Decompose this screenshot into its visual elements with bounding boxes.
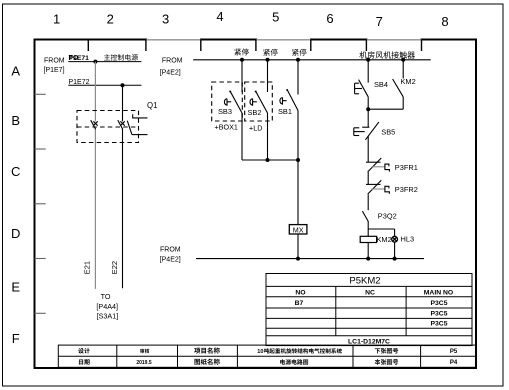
svg-text:[S3A1]: [S3A1]	[97, 311, 119, 320]
svg-text:1: 1	[53, 12, 60, 27]
top bus wire	[193, 59, 431, 61]
svg-text:FROM: FROM	[44, 57, 65, 64]
svg-text:P3C5: P3C5	[430, 310, 447, 317]
label FROM [P4E2] (top)	[160, 58, 183, 77]
wire E22 column	[122, 85, 124, 288]
svg-text:[P4E2]: [P4E2]	[160, 257, 181, 264]
column numbers 1-8	[53, 9, 449, 29]
label 机房风机接触器	[359, 51, 415, 58]
svg-text:B: B	[11, 113, 20, 128]
svg-text:2: 2	[107, 12, 114, 27]
table cells P3C5	[430, 300, 447, 327]
breaker Q1 pole 2	[118, 120, 125, 129]
coil MX	[289, 225, 307, 234]
contact P3FR1 thermal overload	[366, 158, 389, 184]
left row tick marks	[35, 94, 46, 313]
label P1E71 with TO overlap	[69, 55, 90, 62]
junction dots on top bus	[240, 58, 405, 62]
svg-text:TO: TO	[101, 292, 111, 301]
svg-text:3: 3	[162, 12, 169, 27]
breaker Q1 auxiliary contact	[127, 114, 147, 134]
svg-text:NC: NC	[365, 289, 375, 296]
row letters A-F	[11, 63, 20, 346]
svg-text:D: D	[11, 226, 20, 241]
contact P3FR2 thermal overload	[366, 180, 389, 210]
label 主控制电源	[104, 54, 138, 60]
svg-text:P3C5: P3C5	[430, 320, 447, 327]
svg-text:C: C	[11, 164, 20, 179]
pushbutton SB4	[355, 60, 369, 109]
svg-text:10: 10	[257, 349, 263, 355]
svg-text:2019.5: 2019.5	[136, 360, 152, 366]
wire seal-in connector	[368, 108, 403, 110]
pushbutton SB5	[354, 109, 379, 162]
title block	[58, 345, 476, 367]
svg-text:7: 7	[376, 14, 383, 29]
svg-text:LC1-D12M7C: LC1-D12M7C	[348, 338, 390, 345]
svg-text:SB4: SB4	[374, 80, 388, 89]
svg-text:P5KM2: P5KM2	[349, 276, 380, 287]
svg-text:FROM: FROM	[160, 247, 181, 254]
label FROM [P4E2] (bottom)	[160, 247, 181, 264]
top column tick marks	[88, 40, 421, 52]
svg-text:+LD: +LD	[249, 123, 262, 132]
title block cell 下张图号	[375, 348, 398, 354]
svg-text:SB3: SB3	[218, 107, 232, 116]
svg-text:5: 5	[272, 10, 279, 25]
wire E21 column (gray)	[94, 62, 96, 289]
svg-text:P3Q2: P3Q2	[378, 212, 397, 221]
title block cell 本张图号	[375, 359, 399, 365]
coil KM2	[360, 236, 376, 242]
svg-text:SB2: SB2	[248, 108, 262, 117]
svg-text:KM2: KM2	[377, 235, 392, 244]
svg-text:P5: P5	[450, 349, 458, 355]
svg-text:E21: E21	[83, 261, 92, 274]
svg-text:8: 8	[441, 14, 448, 29]
title block cell 电源电路图	[280, 359, 308, 364]
node dot on P1E71	[93, 60, 97, 64]
lamp HL3	[392, 236, 398, 258]
pushbutton SB1	[280, 60, 298, 160]
frame top gray segments	[146, 38, 422, 41]
wire P1E72	[68, 84, 141, 86]
svg-text:E22: E22	[110, 261, 119, 274]
breaker Q1 dashed enclosure	[77, 111, 139, 143]
svg-text:6: 6	[326, 11, 333, 26]
contact P3Q2	[362, 211, 368, 229]
contact KM2 auxiliary	[393, 60, 404, 109]
breaker Q1 pole 1	[91, 120, 98, 129]
svg-text:P4: P4	[450, 360, 458, 366]
title block cell 图纸名称	[194, 359, 219, 365]
title block cell 审核	[140, 349, 149, 354]
svg-text:[P4E2]: [P4E2]	[160, 70, 181, 77]
svg-text:FROM: FROM	[162, 58, 183, 65]
svg-text:P3FR1: P3FR1	[395, 163, 418, 172]
junction dots on connector	[266, 158, 301, 162]
label TO [P4A4] [S3A1]	[96, 292, 118, 321]
label 紧停 (SB1)	[292, 49, 306, 56]
title block cell 日期	[79, 359, 90, 365]
title block cell 项目名称	[194, 347, 220, 353]
node dot on P1E72	[121, 83, 125, 87]
dashed box +LD	[245, 82, 273, 121]
svg-text:P1E72: P1E72	[69, 79, 90, 86]
svg-text:B7: B7	[295, 300, 304, 307]
table column headers NO / NC / MAIN NO	[295, 289, 453, 296]
svg-text:TO: TO	[69, 55, 78, 62]
label 紧停 (SB2)	[263, 49, 277, 56]
label 紧停 (SB3)	[234, 48, 248, 55]
dashed box +BOX1	[212, 82, 243, 121]
bottom bus wire	[196, 258, 424, 260]
svg-text:P3FR2: P3FR2	[395, 185, 418, 194]
title block cell 设计	[78, 348, 90, 354]
label FROM [P1E7]	[44, 57, 65, 74]
pushbutton SB3	[224, 60, 242, 160]
wire node branch to lamp	[368, 229, 394, 237]
pushbutton SB2	[250, 60, 267, 160]
svg-text:A: A	[11, 63, 20, 78]
svg-text:KM2: KM2	[401, 77, 416, 86]
svg-text:F: F	[12, 331, 20, 346]
svg-text:E: E	[11, 280, 20, 295]
svg-text:[P1E7]: [P1E7]	[44, 67, 65, 74]
svg-text:SB1: SB1	[278, 107, 292, 116]
svg-text:Q1: Q1	[147, 101, 157, 110]
svg-text:4: 4	[216, 9, 223, 24]
svg-text:MAIN NO: MAIN NO	[424, 289, 453, 296]
wire MX column	[297, 160, 299, 259]
svg-text:SB5: SB5	[381, 127, 395, 136]
svg-text:+BOX1: +BOX1	[215, 122, 238, 131]
table P5KM2	[266, 274, 472, 346]
svg-text:P3C5: P3C5	[430, 300, 447, 307]
svg-text:MX: MX	[293, 225, 304, 234]
junction dots on bottom bus	[296, 257, 397, 261]
wire connector of stop buttons	[242, 159, 298, 161]
svg-text:HL3: HL3	[401, 235, 415, 244]
svg-text:NO: NO	[295, 289, 305, 296]
wire P1E71	[68, 61, 141, 63]
svg-text:[P4A4]: [P4A4]	[96, 302, 118, 311]
inner drawing frame	[35, 40, 477, 369]
